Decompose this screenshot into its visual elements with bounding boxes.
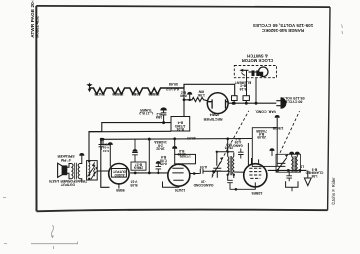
IF box to tube1 grid wire (97, 170, 109, 172)
cap + can below osc (286, 170, 292, 181)
small label left of arrow (upside down) (180, 90, 187, 97)
junction rectifier output (232, 102, 235, 105)
bus B (89, 130, 171, 133)
junction coupling wire right (148, 172, 151, 175)
motor circle (249, 71, 259, 73)
oscillator trimmer (276, 158, 287, 172)
heater string start symbol (87, 83, 92, 93)
junction osc wire coil (299, 169, 302, 172)
speaker label (upside down) (57, 154, 75, 162)
2nd IF transformer (228, 153, 234, 181)
junction on AC line at switch contact (245, 102, 248, 105)
heater element label (upside down) (234, 80, 251, 90)
svg-text:1/4363A: 1/4363A (154, 140, 167, 144)
svg-text:RECTIFIER: RECTIFIER (203, 117, 222, 121)
svg-text:MODEL 4E52: MODEL 4E52 (35, 16, 39, 38)
heater wire voltage labels (upside down) (166, 82, 179, 91)
rectifier label (upside down) (203, 113, 222, 122)
svg-text:©John F. Rider: ©John F. Rider (331, 177, 336, 205)
svg-text:05-125 VOLTS: 05-125 VOLTS (280, 96, 305, 100)
svg-text:OUTPUT: OUTPUT (113, 169, 126, 173)
coupling wire tube1-tube2 (130, 172, 168, 174)
rectifier tube V4 35W4 (207, 93, 228, 114)
svg-text:105-125 VOLTS, 60 CYCLES: 105-125 VOLTS, 60 CYCLES (253, 23, 313, 28)
output transformer (67, 156, 82, 183)
svg-text:4" PM: 4" PM (61, 158, 71, 162)
svg-text:16M: 16M (156, 115, 162, 119)
dashed gang link right (280, 111, 300, 153)
clock motor dashed box (234, 66, 276, 78)
B+ bus A (89, 123, 171, 161)
svg-text:60 CYCLES: 60 CYCLES (282, 100, 302, 104)
junction osc wire cap (287, 169, 290, 172)
plate feed to tube1 (103, 139, 110, 166)
svg-text:L1: L1 (300, 165, 304, 169)
clock motor label (upside down) (242, 54, 274, 64)
svg-text:VAR. COND.: VAR. COND. (255, 109, 276, 113)
svg-text:B-4: B-4 (235, 137, 240, 141)
svg-text:B-2: B-2 (181, 90, 186, 94)
svg-text:B-3: B-3 (312, 168, 318, 172)
svg-text:& SWITCH: & SWITCH (247, 54, 268, 59)
output tube V3 50B5 (109, 164, 129, 184)
svg-text:2MEG: 2MEG (133, 166, 143, 170)
svg-text:TUNER: TUNER (140, 108, 152, 112)
left margin vertical text (30, 0, 39, 38)
oscillator coil box (276, 154, 301, 172)
cap below IF2 (227, 180, 255, 189)
wire motor down to AC line (255, 78, 257, 103)
right-side label (upside down) (305, 168, 323, 178)
1st IF transformer box (87, 161, 98, 180)
svg-text:OUTPUT: OUTPUT (60, 183, 75, 187)
svg-text:B-6: B-6 (226, 142, 232, 146)
svg-text:-10: -10 (201, 180, 206, 184)
filter block box (171, 117, 190, 132)
ground symbol (307, 170, 309, 178)
svg-text:1/363B: 1/363B (272, 126, 283, 130)
svg-text:CLOCK MOTOR: CLOCK MOTOR (242, 58, 274, 63)
oscillator box (252, 128, 277, 167)
resistor label (upside down) (197, 90, 205, 97)
svg-text:40-05: 40-05 (187, 136, 196, 140)
cap arrow inside box right (271, 151, 273, 157)
svg-text:RANGE 540-1620KC: RANGE 540-1620KC (261, 28, 304, 33)
svg-text:12AT6: 12AT6 (94, 92, 105, 96)
svg-text:B-4: B-4 (177, 121, 183, 125)
switch contact down to line block (246, 70, 248, 95)
small cap with arrow on bus C left (99, 139, 105, 150)
upside-down header: voltage / range (253, 23, 313, 33)
B+ arrow near rectifier (189, 94, 191, 98)
arrow at box top right (276, 118, 278, 128)
junction on AC line at motor lead (255, 102, 258, 105)
svg-text:B-05: B-05 (130, 183, 137, 187)
bus C (AVC line) (101, 138, 253, 141)
svg-text:50B5: 50B5 (116, 188, 125, 192)
svg-text:B-8: B-8 (179, 149, 184, 153)
svg-text:12BE6: 12BE6 (148, 92, 159, 96)
junction on AC line at switch block (233, 102, 236, 105)
plug voltage label (upside down) (280, 96, 305, 104)
svg-text:A-05: A-05 (200, 165, 207, 169)
svg-text:30-08: 30-08 (169, 82, 178, 86)
page border frame (36, 6, 330, 211)
small caps left of converter (238, 149, 244, 159)
vertical from heater node down into filter box (183, 84, 185, 116)
oscillator coil windings (292, 154, 298, 172)
junction osc wire trimmer (276, 169, 279, 172)
motor terminals (252, 70, 255, 76)
switch inside clock box (239, 69, 248, 76)
heater filament string (4 sawtooth heaters) (90, 88, 185, 94)
svg-text:35W4: 35W4 (210, 113, 219, 117)
junction bus C left (100, 138, 103, 141)
surge resistor left of rectifier (184, 97, 208, 101)
svg-text:B-6: B-6 (161, 155, 166, 159)
tuner cap + label above bus A (upside down) (161, 110, 167, 122)
junction bus A tuner cap (162, 121, 165, 124)
junction bus C mid (148, 138, 151, 141)
svg-text:6W: 6W (198, 90, 204, 94)
dashed gang link left (212, 111, 249, 178)
AC plug (276, 98, 286, 109)
svg-text:12BD6: 12BD6 (112, 92, 123, 96)
det/1st audio tube V2 12AT6 (168, 164, 190, 186)
svg-text:ELEMENT: ELEMENT (234, 80, 251, 84)
electrolytic dome above transformer (79, 153, 84, 156)
svg-text:7/433B: 7/433B (256, 129, 267, 133)
svg-text:12AT6: 12AT6 (175, 188, 186, 192)
junction coupling wire left (134, 172, 137, 175)
svg-text:SPEAKER: SPEAKER (57, 154, 75, 158)
converter tube V1 12BE6 (244, 164, 267, 187)
svg-text:50B5: 50B5 (132, 92, 141, 96)
heater tube labels (upside down) (94, 92, 159, 96)
AC supply wire (229, 102, 277, 104)
tuning gang section 1 (212, 161, 222, 178)
svg-text:6-6 V12: 6-6 V12 (166, 87, 179, 91)
osc output wire (268, 169, 307, 171)
speaker (58, 163, 67, 177)
line switch blocks above AC wire (232, 96, 238, 101)
coupling cap to converter (200, 169, 230, 174)
middle cluster caps/labels between tube1 and tube2 (134, 139, 136, 151)
output transformer label (upside down) (49, 179, 87, 186)
svg-text:ATWR PAGE 20-1: ATWR PAGE 20-1 (30, 0, 35, 38)
wire heater string to AC switch (184, 84, 235, 95)
gang cap top wire to IF2 and bus (217, 139, 234, 166)
svg-text:12BE6: 12BE6 (252, 191, 263, 195)
vertical x=100.8 down to tube1 bottom (101, 139, 110, 187)
